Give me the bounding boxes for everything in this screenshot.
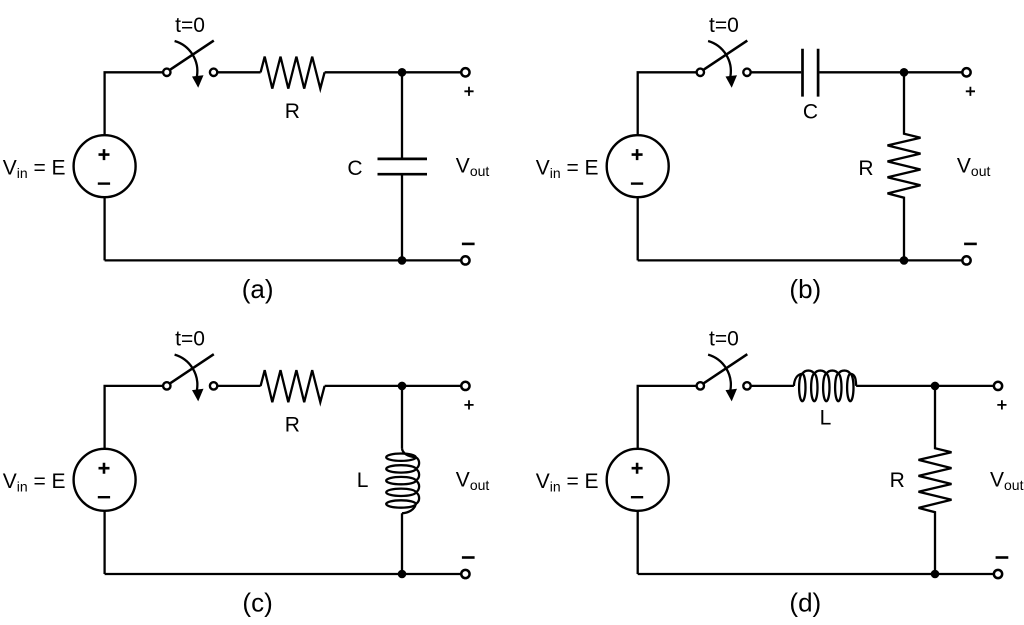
wire capacitor to terminal [820,71,962,73]
source V4 circle [607,449,669,511]
svg-text:Vin = E: Vin = E [536,156,599,181]
svg-text:Vin = E: Vin = E [3,156,66,181]
source minus sign [631,496,643,498]
polarity minus [996,556,1009,559]
output terminal top [461,382,469,390]
switch arrowhead [726,75,738,88]
output terminal top [962,68,970,76]
output terminal bottom [461,256,469,264]
wire left rail bottom [103,511,105,574]
wire switch to resistor [218,385,261,387]
node dot top [398,382,407,391]
inductor L coil entry [794,374,802,386]
polarity minus [964,243,977,246]
output terminal bottom [994,570,1002,578]
source V1 circle [74,135,136,197]
resistor R [261,370,325,402]
source plus sign [632,149,643,160]
svg-text:L: L [820,407,832,430]
switch blade [170,354,214,383]
inductor L loops [799,374,805,401]
polarity plus [464,400,473,409]
switch actuation arc [175,41,198,77]
polarity minus [462,243,475,246]
inductor L coil entry [402,448,416,457]
wire bottom [105,573,461,575]
node dot bottom [398,570,407,579]
inductor L top connecting arcs [802,371,850,374]
switch arrowhead [726,389,738,402]
switch SW3 contact circles [163,382,170,389]
capacitor C plates [378,159,428,174]
svg-text:L: L [357,469,369,492]
source plus sign [99,149,110,160]
resistor R vertical [888,72,921,260]
inductor L coil exit [402,504,416,513]
source minus sign [631,182,643,184]
polarity plus [966,87,975,96]
svg-text:Vout: Vout [456,155,490,180]
svg-text:t=0: t=0 [175,328,205,351]
node dot top [931,382,940,391]
polarity plus [997,400,1006,409]
svg-text:C: C [803,101,818,124]
svg-text:(c): (c) [242,588,272,618]
wire switch to resistor [218,71,261,73]
svg-text:R: R [285,100,300,123]
wire bottom [638,573,993,575]
svg-text:t=0: t=0 [175,14,205,37]
wire top-left rail to switch [105,72,163,135]
inductor L leads [401,386,403,574]
source minus sign [98,182,110,184]
svg-text:C: C [347,157,362,180]
svg-text:R: R [285,414,300,437]
node dot bottom [900,256,909,265]
polarity plus [464,87,473,96]
inductor L coil exit [850,374,856,386]
wire resistor to output terminal [325,71,461,73]
capacitor C leads [401,72,403,260]
switch actuation arc [175,355,198,391]
svg-text:R: R [858,157,873,180]
svg-text:(b): (b) [789,274,821,304]
wire top-left rail to switch [105,386,163,449]
wire resistor to terminal [325,385,461,387]
svg-text:t=0: t=0 [709,328,739,351]
polarity minus [462,556,475,559]
svg-text:R: R [890,469,905,492]
wire top-left rail to switch [638,386,697,449]
switch arrowhead [192,75,204,88]
svg-text:(d): (d) [789,588,821,618]
output terminal top [994,382,1002,390]
capacitor C plates [803,49,819,97]
svg-text:Vin = E: Vin = E [536,470,599,495]
resistor R [261,57,325,89]
switch blade [704,354,748,383]
node dot top [398,68,407,77]
source plus sign [99,463,110,474]
inductor L loops [386,454,416,461]
source V2 circle [607,135,669,197]
switch arrowhead [192,389,204,402]
wire switch to capacitor [751,71,801,73]
switch actuation arc [708,41,731,77]
svg-text:Vout: Vout [957,155,991,180]
wire bottom [105,259,461,261]
node dot bottom [398,256,407,265]
svg-text:(a): (a) [242,274,274,304]
wire switch to inductor [751,385,794,387]
switch SW2 contact circles [697,69,704,76]
output terminal bottom [461,570,469,578]
svg-text:t=0: t=0 [709,14,739,37]
output terminal bottom [962,256,970,264]
svg-text:Vin = E: Vin = E [3,470,66,495]
switch blade [704,41,748,70]
wire top-left rail to switch [638,72,697,135]
wire left rail bottom [637,511,639,574]
wire inductor to terminal [856,385,993,387]
wire left rail bottom [637,197,639,260]
switch actuation arc [708,355,731,391]
svg-text:Vout: Vout [990,468,1024,493]
wire bottom [638,259,962,261]
node dot top [900,68,909,77]
source minus sign [98,496,110,498]
inductor L right connecting arcs [416,457,419,504]
switch SW4 contact circles [697,382,704,389]
source plus sign [632,463,643,474]
svg-text:Vout: Vout [456,468,490,493]
source V3 circle [74,449,136,511]
resistor R vertical [919,386,952,574]
switch blade [170,41,214,70]
node dot bottom [931,570,940,579]
wire left rail bottom [103,197,105,260]
switch SW1 contact circles [163,69,170,76]
output terminal top [461,68,469,76]
